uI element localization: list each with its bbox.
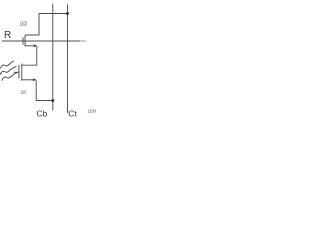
svg-text:1102: 1102 — [20, 22, 28, 28]
svg-text:Ct: Ct — [68, 108, 77, 118]
svg-text:R: R — [4, 30, 11, 41]
svg-text:Cb: Cb — [36, 108, 47, 118]
svg-text:1101: 1101 — [20, 90, 27, 95]
svg-text:1100: 1100 — [88, 109, 97, 114]
